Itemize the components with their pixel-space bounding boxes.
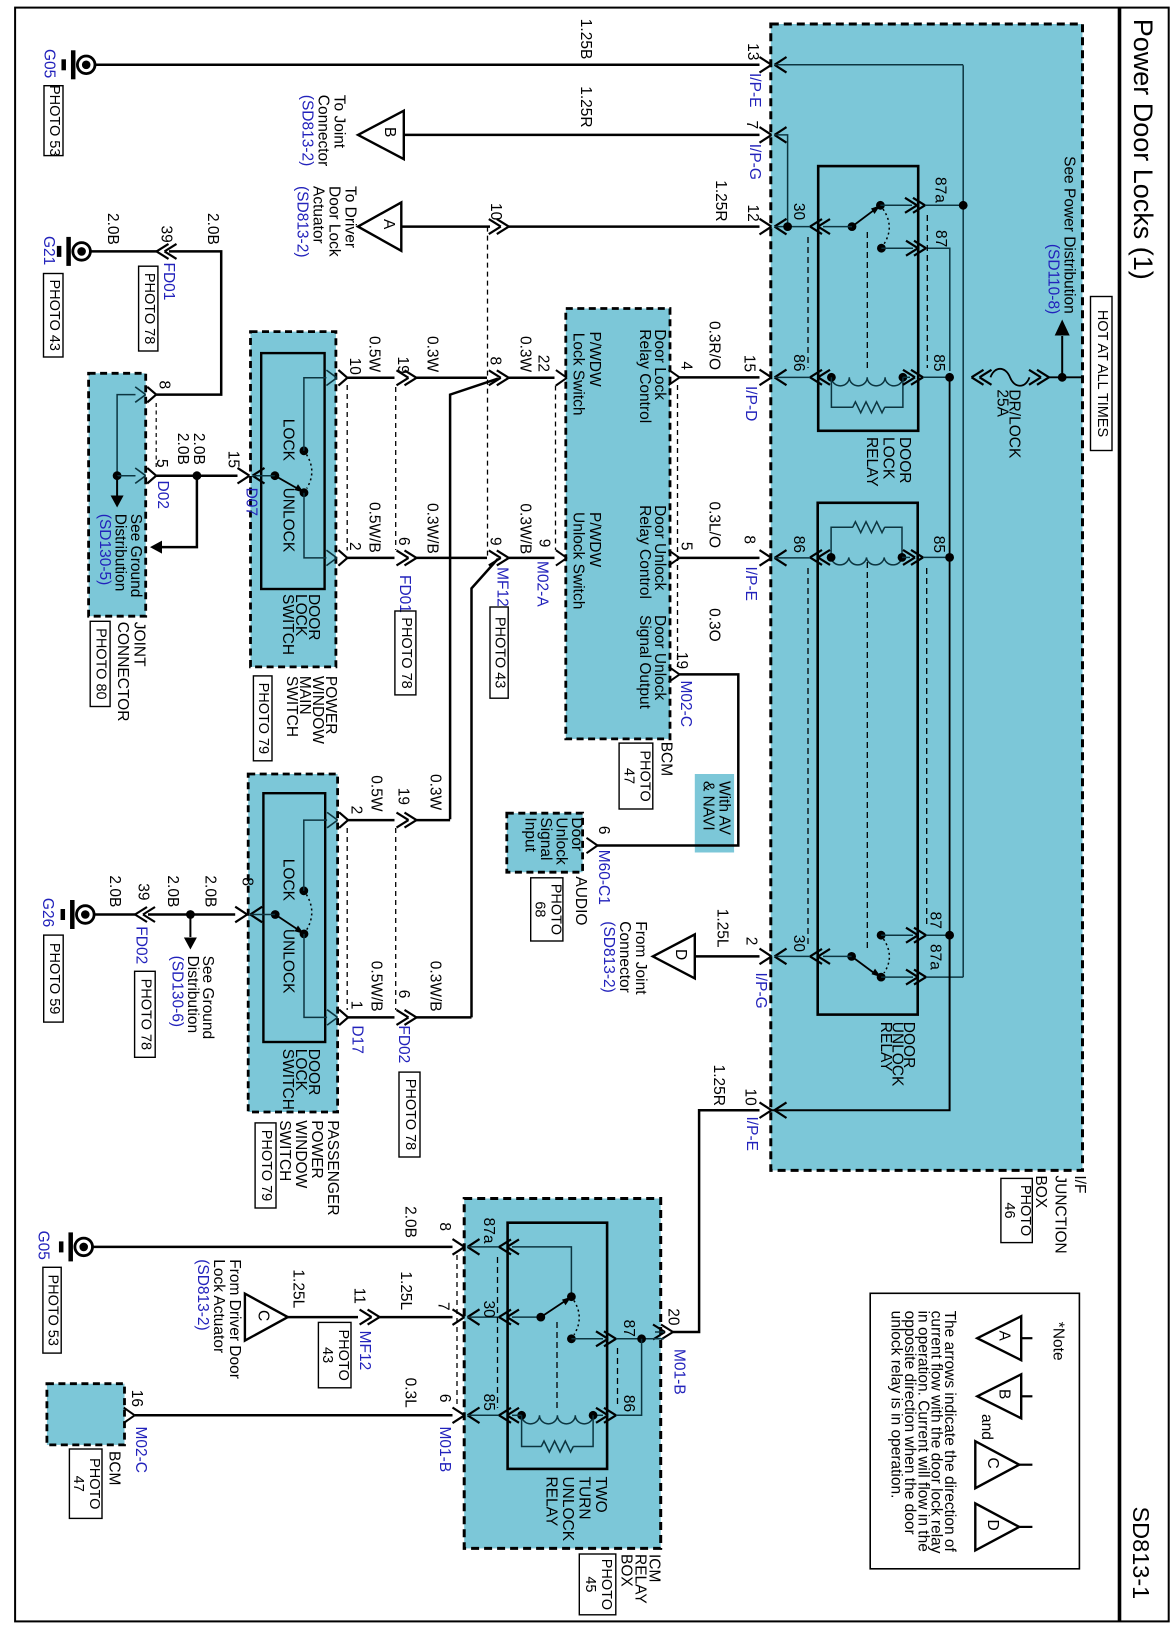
- door unlock relay switch: [847, 952, 856, 961]
- wire 1.25R B to I/P-G 7: [404, 134, 760, 137]
- ground G21: [73, 243, 91, 261]
- svg-text:0.5W: 0.5W: [366, 336, 383, 373]
- BCM connector bracket dash right: [677, 385, 679, 667]
- svg-text:G26: G26: [39, 898, 56, 927]
- connector FD02 pin 19: [405, 813, 417, 821]
- wire 0.3O BCM 19 to audio M60-C1 6: [669, 667, 680, 675]
- svg-text:SWITCH: SWITCH: [279, 1049, 296, 1110]
- wire 2.0B D02 5 to D07 15: [156, 474, 237, 477]
- svg-text:0.5W: 0.5W: [368, 775, 385, 812]
- connector D07 pin 10: [326, 370, 337, 378]
- wire 0.5W D07 10 to FD01 19: [347, 377, 394, 380]
- two turn relay pin 30: [499, 1310, 511, 1318]
- svg-text:0.3W: 0.3W: [424, 336, 441, 373]
- svg-text:Relay Control: Relay Control: [636, 505, 653, 599]
- svg-text:39: 39: [135, 883, 152, 900]
- door lock relay mechanical link: [866, 232, 868, 372]
- label HOT AT ALL TIMES: [1091, 297, 1113, 451]
- svg-text:PHOTO 43: PHOTO 43: [492, 617, 508, 688]
- svg-text:6: 6: [395, 990, 412, 999]
- door lock relay coil resistor: [831, 377, 853, 407]
- two turn relay coil: [522, 1415, 594, 1424]
- svg-text:SWITCH: SWITCH: [276, 1120, 293, 1181]
- svg-text:87a: 87a: [932, 177, 949, 203]
- connector I/P-E pin 8: [760, 550, 772, 558]
- svg-text:2.0B: 2.0B: [204, 213, 221, 245]
- driver door lock switch box: [261, 353, 324, 589]
- svg-text:46: 46: [1001, 1202, 1017, 1218]
- connector D07 pin 15: [238, 468, 250, 476]
- svg-text:0.3W: 0.3W: [427, 774, 444, 811]
- driver door lock switch contacts: [271, 471, 280, 480]
- svg-text:30: 30: [790, 203, 807, 221]
- svg-text:13: 13: [744, 43, 761, 60]
- svg-text:Relay Control: Relay Control: [636, 329, 653, 423]
- connector MF12 bracket dash: [487, 227, 489, 558]
- svg-text:8: 8: [156, 381, 173, 390]
- svg-text:WINDOW: WINDOW: [292, 1120, 309, 1188]
- svg-text:SD813-1: SD813-1: [1128, 1507, 1154, 1600]
- svg-text:87: 87: [932, 230, 949, 247]
- wire 1.25L C to MF12 11: [288, 1316, 358, 1319]
- junction box internal bus 85-87: [949, 377, 951, 935]
- wire I/P-E 10 internal: [772, 935, 950, 1110]
- door lock relay U1: [818, 166, 918, 431]
- svg-text:15: 15: [225, 451, 242, 468]
- connector MF12 pin 9: [497, 550, 509, 558]
- BCM box: [566, 309, 670, 739]
- svg-text:1.25B: 1.25B: [577, 19, 594, 60]
- wire 0.3R/O BCM 4 to I/P-D 15: [669, 370, 680, 378]
- door unlock relay coil resistor: [831, 527, 853, 557]
- two turn relay pin 86: [604, 1408, 616, 1416]
- svg-text:From Joint: From Joint: [632, 921, 649, 995]
- svg-text:12: 12: [744, 205, 761, 222]
- svg-text:6: 6: [595, 826, 612, 835]
- svg-text:I/P-E: I/P-E: [743, 1117, 760, 1151]
- svg-text:SWITCH: SWITCH: [283, 676, 300, 737]
- door lock relay pin 86: [810, 370, 822, 378]
- connector D17 pin 8: [235, 907, 247, 915]
- svg-text:85: 85: [930, 536, 947, 553]
- svg-text:I/F: I/F: [1071, 1175, 1088, 1193]
- svg-text:5: 5: [153, 459, 170, 468]
- wire 0.5W/B D17 1 to FD02 6: [347, 1016, 394, 1019]
- passenger switch unlock output wire: [304, 934, 327, 1018]
- note triangle D: [975, 1503, 1019, 1550]
- wire 1.25R A to I/P-G 12: [401, 225, 490, 228]
- svg-text:I/P-E: I/P-E: [746, 73, 763, 107]
- svg-text:With AV: With AV: [716, 781, 733, 836]
- wire 2.0B G21 to FD01 39: [91, 250, 157, 253]
- svg-text:0.5W/B: 0.5W/B: [368, 961, 385, 1012]
- svg-text:6: 6: [395, 537, 412, 546]
- svg-text:D02: D02: [154, 481, 171, 509]
- svg-text:G05: G05: [41, 49, 58, 78]
- ground G26: [77, 906, 95, 924]
- driver switch unlock output wire: [304, 493, 326, 558]
- svg-text:PHOTO: PHOTO: [1017, 1185, 1033, 1236]
- two turn unlock relay U3: [508, 1223, 607, 1469]
- joint connector internal: [117, 395, 135, 476]
- svg-text:LOCK: LOCK: [280, 859, 297, 902]
- svg-text:19: 19: [394, 357, 411, 374]
- svg-text:PASSENGER: PASSENGER: [324, 1120, 341, 1215]
- joint connector ground arrow: [116, 476, 118, 496]
- svg-text:PHOTO 78: PHOTO 78: [398, 617, 414, 688]
- door lock relay pin 85: [911, 370, 923, 378]
- svg-text:1.25R: 1.25R: [712, 180, 729, 221]
- svg-text:M60-C1: M60-C1: [595, 850, 612, 905]
- svg-text:30: 30: [790, 935, 807, 953]
- power window main switch box: [251, 332, 336, 667]
- audio pin 6: [587, 838, 598, 846]
- svg-text:MF12: MF12: [356, 1331, 373, 1371]
- two turn relay coil resistor: [522, 1415, 542, 1446]
- I/F junction box: [771, 24, 1083, 1170]
- svg-text:11: 11: [351, 1288, 368, 1304]
- svg-text:(SD130-5): (SD130-5): [96, 514, 113, 586]
- svg-text:Door Lock: Door Lock: [326, 186, 343, 257]
- note triangle B: [977, 1374, 1021, 1418]
- ICM border connector pin 6: [453, 1408, 465, 1416]
- svg-text:45: 45: [582, 1576, 598, 1592]
- note triangle A: [977, 1316, 1021, 1360]
- svg-text:PHOTO: PHOTO: [547, 884, 563, 935]
- svg-text:MF12: MF12: [494, 567, 511, 607]
- connector I/P-G pin 2: [760, 949, 772, 957]
- door unlock relay pin 30: [810, 949, 822, 957]
- svg-text:1.25L: 1.25L: [290, 1269, 307, 1308]
- connector D17 pin 1: [327, 1010, 338, 1018]
- joint connector box: [89, 373, 146, 616]
- door lock relay pin 87: [914, 241, 926, 249]
- wire 0.5W/B D07 2 to FD01 6: [347, 557, 394, 560]
- wire 0.5W D17 2 to FD02 19: [347, 819, 394, 822]
- svg-text:47: 47: [70, 1476, 86, 1492]
- svg-text:PHOTO: PHOTO: [335, 1329, 351, 1380]
- With AV & NAVI tag: [695, 774, 734, 853]
- svg-text:0.3W/B: 0.3W/B: [424, 503, 441, 554]
- passenger ground branch arrow: [189, 915, 191, 938]
- note box: [870, 1293, 1079, 1569]
- svg-text:Connector: Connector: [315, 95, 332, 167]
- connector FD01 pin 39: [157, 244, 169, 252]
- ground branch arrow: [162, 476, 197, 547]
- svg-text:UNLOCK: UNLOCK: [280, 929, 297, 994]
- svg-text:I/P-D: I/P-D: [742, 386, 759, 421]
- svg-text:BOX: BOX: [1032, 1175, 1049, 1208]
- connector FD01 pin 6: [405, 550, 417, 558]
- svg-text:8: 8: [487, 357, 504, 366]
- connector I/P-D pin 15: [760, 370, 772, 378]
- svg-text:FD01: FD01: [396, 575, 413, 613]
- connector D02 pin 5: [135, 468, 146, 476]
- title separator rule: [1118, 8, 1122, 1622]
- svg-text:Lock Actuator: Lock Actuator: [210, 1259, 227, 1353]
- svg-text:G05: G05: [35, 1231, 52, 1260]
- svg-text:RELAY: RELAY: [877, 1022, 894, 1072]
- svg-text:UNLOCK: UNLOCK: [280, 488, 297, 553]
- svg-text:8: 8: [436, 1222, 453, 1231]
- D17 bracket dash: [346, 828, 348, 1010]
- svg-text:Door: Door: [568, 817, 585, 851]
- svg-text:B: B: [996, 1389, 1013, 1399]
- passenger door lock switch contacts: [271, 910, 280, 919]
- svg-text:86: 86: [620, 1395, 637, 1412]
- svg-text:2.0B: 2.0B: [402, 1206, 419, 1238]
- svg-text:M01-B: M01-B: [436, 1427, 453, 1473]
- svg-text:PHOTO 78: PHOTO 78: [137, 979, 153, 1050]
- triangle C from driver door lock actuator: [245, 1294, 288, 1341]
- svg-text:PHOTO 53: PHOTO 53: [45, 1274, 61, 1345]
- svg-text:RELAY: RELAY: [542, 1477, 559, 1527]
- svg-text:8: 8: [239, 877, 256, 886]
- two turn relay connector dashes: [497, 1257, 499, 1408]
- svg-text:2.0B: 2.0B: [202, 875, 219, 907]
- svg-text:To Joint: To Joint: [331, 95, 348, 149]
- power feed arrow: [1061, 336, 1063, 377]
- ICM pin 20 wire internal: [655, 1331, 664, 1333]
- svg-text:20: 20: [665, 1308, 682, 1326]
- svg-text:PHOTO 53: PHOTO 53: [46, 85, 62, 156]
- svg-text:9: 9: [536, 539, 553, 548]
- svg-text:87a: 87a: [927, 944, 944, 970]
- svg-text:85: 85: [930, 354, 947, 371]
- svg-text:0.3R/O: 0.3R/O: [706, 321, 723, 370]
- door unlock relay connector dashes: [807, 568, 809, 946]
- svg-text:2.0B: 2.0B: [174, 433, 191, 465]
- wire 1.25L MF12 to ICM 7: [380, 1316, 453, 1319]
- svg-text:FD02: FD02: [395, 1025, 412, 1063]
- FD01 bracket dash: [395, 387, 397, 550]
- svg-text:0.3L: 0.3L: [401, 1378, 418, 1409]
- connector FD02 pin 39: [135, 907, 147, 915]
- svg-text:2: 2: [346, 542, 363, 551]
- svg-text:43: 43: [319, 1347, 335, 1363]
- AUDIO unit box: [507, 813, 583, 872]
- svg-text:RELAY: RELAY: [863, 437, 880, 487]
- svg-text:(SD813-2): (SD813-2): [600, 921, 617, 993]
- svg-text:BCM: BCM: [105, 1451, 122, 1485]
- passenger switch lock output wire: [304, 820, 327, 891]
- wire 2.0B FD02 to D17 8: [148, 913, 235, 916]
- junction box internal ground bus 87a-13: [962, 65, 964, 977]
- two turn relay pin 85: [499, 1408, 511, 1416]
- svg-text:PHOTO: PHOTO: [598, 1559, 614, 1610]
- svg-text:PHOTO 78: PHOTO 78: [402, 1079, 418, 1150]
- svg-text:See Power Distribution: See Power Distribution: [1061, 156, 1078, 314]
- wire 0.3W/B FD01 to MF12 9: [417, 557, 488, 560]
- svg-text:Actuator: Actuator: [310, 186, 327, 244]
- svg-text:19: 19: [673, 652, 690, 669]
- svg-text:22: 22: [535, 355, 552, 372]
- door lock relay coil: [831, 377, 903, 386]
- svg-text:FD02: FD02: [133, 926, 150, 964]
- svg-text:LOCK: LOCK: [880, 437, 897, 480]
- svg-text:unlock relay is in operation.: unlock relay is in operation.: [888, 1311, 905, 1499]
- fuse DR/LOCK 25A: [972, 370, 984, 378]
- svg-text:Distribution: Distribution: [112, 514, 129, 592]
- svg-text:To Driver: To Driver: [342, 186, 359, 248]
- svg-text:HOT AT ALL TIMES: HOT AT ALL TIMES: [1094, 310, 1110, 437]
- svg-text:2: 2: [743, 937, 760, 946]
- svg-text:I/P-G: I/P-G: [746, 144, 763, 180]
- wire 2.0B FD01 to joint connector 8: [156, 251, 221, 394]
- svg-text:(SD813-2): (SD813-2): [294, 186, 311, 258]
- svg-text:86: 86: [790, 354, 807, 371]
- note triangle C: [975, 1441, 1019, 1488]
- M01-B bracket dash: [456, 1255, 458, 1408]
- svg-text:Distribution: Distribution: [184, 956, 201, 1034]
- svg-text:8: 8: [741, 535, 758, 544]
- svg-text:(SD813-2): (SD813-2): [194, 1259, 211, 1331]
- wire 1.25L D to I/P-G 2: [695, 955, 760, 958]
- driver switch lock output wire: [304, 378, 327, 451]
- connector FD02 pin 6: [405, 1010, 417, 1018]
- door lock relay switch: [848, 222, 857, 231]
- svg-text:0.3L/O: 0.3L/O: [706, 502, 723, 549]
- door lock relay pin 87a: [913, 198, 925, 206]
- svg-text:PHOTO 43: PHOTO 43: [46, 279, 62, 350]
- svg-text:D: D: [984, 1520, 1001, 1531]
- svg-text:30: 30: [480, 1301, 497, 1319]
- svg-text:Power Door Locks (1): Power Door Locks (1): [1128, 19, 1158, 280]
- svg-text:2.0B: 2.0B: [190, 433, 207, 465]
- connector FD01 pin 19: [405, 370, 417, 378]
- two turn relay pin 87a: [499, 1239, 511, 1247]
- svg-text:87a: 87a: [480, 1218, 497, 1244]
- svg-text:47: 47: [621, 768, 637, 784]
- svg-text:TWO: TWO: [592, 1477, 609, 1513]
- svg-text:C: C: [255, 1310, 272, 1321]
- svg-text:D: D: [672, 949, 689, 960]
- svg-text:C: C: [984, 1458, 1001, 1469]
- svg-text:D07: D07: [243, 488, 260, 516]
- svg-text:PHOTO 59: PHOTO 59: [46, 943, 62, 1014]
- connector MF12 pin 11: [368, 1310, 380, 1318]
- svg-text:87: 87: [927, 912, 944, 929]
- svg-text:I/P-G: I/P-G: [752, 973, 769, 1009]
- svg-text:7: 7: [435, 1302, 452, 1311]
- svg-text:7: 7: [743, 121, 760, 130]
- svg-text:Connector: Connector: [616, 921, 633, 993]
- svg-text:UNLOCK: UNLOCK: [559, 1477, 576, 1542]
- svg-text:JUNCTION: JUNCTION: [1052, 1175, 1069, 1253]
- door unlock relay pin 87a: [914, 970, 926, 978]
- wire 0.3L/O BCM 5 to I/P-E 8: [669, 550, 680, 558]
- svg-text:Unlock Switch: Unlock Switch: [570, 512, 587, 609]
- svg-text:A: A: [996, 1331, 1013, 1342]
- svg-text:0.3W: 0.3W: [517, 336, 534, 373]
- svg-text:2.0B: 2.0B: [104, 213, 121, 245]
- door unlock relay U2: [818, 503, 918, 1015]
- svg-text:25A: 25A: [994, 389, 1011, 417]
- connector D07 pin 2: [326, 550, 337, 558]
- wire 0.3W/B MF12 to BCM 9: [509, 557, 555, 560]
- ground G05 bottom: [75, 1238, 93, 1256]
- svg-text:19: 19: [395, 788, 412, 805]
- wire 2.0B G05 to ICM 8: [93, 1246, 453, 1249]
- door unlock relay pin 87: [914, 928, 926, 936]
- triangle B to joint connector: [358, 111, 404, 159]
- svg-text:2: 2: [348, 806, 365, 815]
- svg-text:10: 10: [346, 358, 363, 376]
- FD02 bracket dash: [395, 828, 397, 1010]
- D07 bracket dash: [346, 385, 348, 551]
- svg-text:P/WDW: P/WDW: [586, 512, 603, 567]
- triangle A to driver door lock actuator: [358, 202, 401, 250]
- svg-text:16: 16: [128, 1390, 145, 1407]
- passenger power window switch box: [248, 774, 337, 1112]
- passenger lock merge diagonal: [450, 379, 498, 820]
- svg-text:39: 39: [158, 226, 175, 243]
- svg-text:FD01: FD01: [160, 263, 177, 301]
- svg-text:Signal Output: Signal Output: [636, 615, 653, 710]
- connector D02 pin 8: [135, 387, 146, 395]
- svg-text:TURN: TURN: [576, 1477, 593, 1520]
- svg-text:BCM: BCM: [657, 742, 674, 776]
- svg-text:Input: Input: [522, 817, 539, 852]
- svg-text:AUDIO: AUDIO: [572, 876, 589, 925]
- svg-text:DOOR: DOOR: [896, 437, 913, 484]
- svg-text:86: 86: [790, 536, 807, 553]
- svg-text:10: 10: [487, 203, 504, 221]
- svg-text:B: B: [381, 127, 398, 137]
- svg-text:10: 10: [742, 1089, 759, 1107]
- svg-text:2.0B: 2.0B: [164, 875, 181, 907]
- connector I/P-G pin 7: [760, 127, 772, 135]
- connector I/P-E pin 13: [760, 57, 772, 65]
- svg-text:(SD110-8): (SD110-8): [1044, 244, 1061, 314]
- svg-text:M02-C: M02-C: [677, 681, 694, 728]
- svg-text:85: 85: [480, 1394, 497, 1411]
- svg-text:0.3O: 0.3O: [706, 608, 723, 642]
- svg-text:1.25L: 1.25L: [714, 909, 731, 948]
- passenger door lock switch box: [263, 793, 325, 1042]
- svg-text:PHOTO 79: PHOTO 79: [258, 1130, 274, 1201]
- svg-text:1.25R: 1.25R: [710, 1065, 727, 1106]
- svg-text:6: 6: [436, 1394, 453, 1403]
- wire 0.3W FD01 to MF12 8: [417, 377, 488, 380]
- door unlock relay coil: [831, 557, 902, 565]
- ICM relay box: [464, 1199, 661, 1549]
- svg-text:M02-C: M02-C: [132, 1427, 149, 1474]
- svg-text:*Note: *Note: [1050, 1322, 1067, 1361]
- svg-text:4: 4: [678, 361, 695, 370]
- svg-text:0.5W/B: 0.5W/B: [366, 502, 383, 553]
- svg-text:(SD813-2): (SD813-2): [299, 95, 316, 167]
- connector MF12 pin 8: [497, 370, 509, 378]
- ICM border connector pin 7: [453, 1309, 465, 1317]
- svg-text:CONNECTOR: CONNECTOR: [114, 622, 131, 722]
- svg-text:9: 9: [487, 537, 504, 546]
- svg-text:LOCK: LOCK: [280, 419, 297, 462]
- svg-text:JOINT: JOINT: [130, 622, 147, 667]
- svg-text:PHOTO: PHOTO: [86, 1458, 102, 1509]
- wire 2.0B G26 to FD02 39: [94, 913, 135, 916]
- door unlock relay mechanical link: [866, 562, 868, 950]
- svg-text:G21: G21: [40, 236, 57, 265]
- svg-text:0.3W/B: 0.3W/B: [517, 503, 534, 554]
- connector M01-B pin 20: [661, 1325, 673, 1333]
- svg-text:(SD130-6): (SD130-6): [168, 956, 185, 1028]
- svg-text:68: 68: [531, 901, 547, 917]
- driver unlock merge diagonal: [472, 559, 499, 1018]
- door unlock relay pin 85: [911, 550, 923, 558]
- ground G05 top: [77, 56, 95, 74]
- BCM pin 22: [556, 370, 567, 378]
